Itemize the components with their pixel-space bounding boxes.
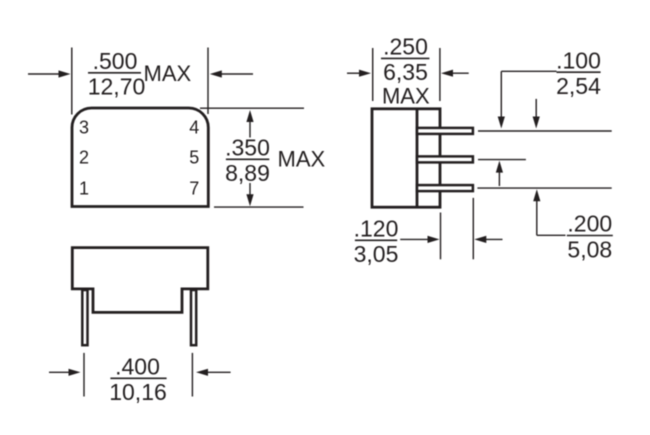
svg-text:1: 1 xyxy=(79,178,89,198)
svg-text:.350: .350 xyxy=(225,135,270,161)
svg-text:MAX: MAX xyxy=(278,146,326,171)
svg-text:8,89: 8,89 xyxy=(225,160,270,186)
svg-text:12,70: 12,70 xyxy=(88,74,146,100)
svg-text:.400: .400 xyxy=(115,354,160,380)
svg-text:.100: .100 xyxy=(556,47,601,73)
svg-text:4: 4 xyxy=(189,117,199,137)
svg-text:7: 7 xyxy=(189,178,199,198)
svg-text:2,54: 2,54 xyxy=(556,73,601,99)
svg-text:10,16: 10,16 xyxy=(109,379,167,405)
svg-text:.250: .250 xyxy=(383,34,428,60)
svg-text:3: 3 xyxy=(79,117,89,137)
svg-text:MAX: MAX xyxy=(144,61,192,86)
svg-text:6,35: 6,35 xyxy=(383,59,428,85)
svg-text:5: 5 xyxy=(189,147,199,167)
svg-text:2: 2 xyxy=(79,147,89,167)
svg-text:.500: .500 xyxy=(93,48,138,74)
svg-text:MAX: MAX xyxy=(382,83,430,108)
svg-text:.200: .200 xyxy=(567,211,612,237)
svg-text:5,08: 5,08 xyxy=(567,236,612,262)
svg-text:3,05: 3,05 xyxy=(354,241,399,267)
svg-text:.120: .120 xyxy=(354,216,399,242)
